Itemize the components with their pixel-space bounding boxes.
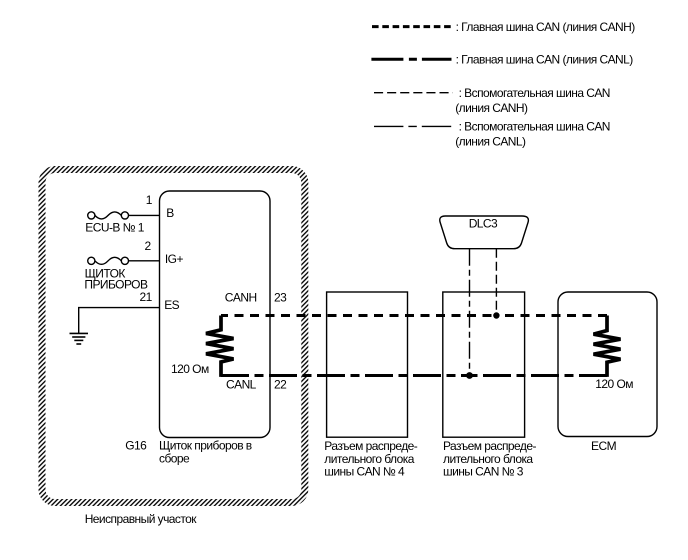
- label ECM: [591, 439, 617, 453]
- svg-text:ПРИБОРОВ: ПРИБОРОВ: [84, 278, 148, 292]
- pin 1: [146, 193, 153, 207]
- faulty area caption: [85, 512, 198, 526]
- svg-text:Разъем распреде-: Разъем распреде-: [443, 439, 536, 453]
- legend sample: auxiliary CAN bus CANH (thin dashed): [374, 92, 453, 94]
- svg-text:CANL: CANL: [226, 377, 257, 391]
- svg-text:(линия CANL): (линия CANL): [455, 135, 526, 149]
- pin name ES: [164, 298, 179, 312]
- instrument cluster box G16: [160, 191, 271, 438]
- svg-text:2: 2: [145, 239, 152, 253]
- svg-text:23: 23: [274, 290, 287, 304]
- CAN junction box No.3: [443, 292, 525, 437]
- svg-text:DLC3: DLC3: [469, 217, 498, 231]
- label G16: [125, 438, 147, 452]
- pin 21: [140, 290, 153, 304]
- pin name B: [166, 206, 174, 220]
- svg-text:21: 21: [140, 290, 153, 304]
- wire fuse2 to pin IG+: [129, 260, 160, 262]
- svg-text:: Главная шина CAN (линия CANH: : Главная шина CAN (линия CANH): [456, 20, 636, 34]
- svg-text:(линия CANH): (линия CANH): [455, 101, 528, 115]
- ECM box: [558, 292, 657, 437]
- wire: aux bus CANL (thin dash-dot) DLC3 to CANL node: [469, 249, 471, 376]
- wire: aux bus CANH (thin dashed) DLC3 to CANH node: [495, 249, 497, 316]
- resistor R2 120 Ohm (ECM terminating resistor): [594, 316, 621, 377]
- svg-text:1: 1: [146, 193, 153, 207]
- pin name CANH: [225, 290, 257, 304]
- svg-text:Разъем распреде-: Разъем распреде-: [324, 439, 417, 453]
- legend text: auxiliary CAN bus CANL: [455, 120, 610, 149]
- pin name CANL: [226, 377, 257, 391]
- resistor R1 120 Ohm (instrument cluster terminating resistor): [206, 316, 234, 377]
- svg-text:: Вспомогательная шина CAN: : Вспомогательная шина CAN: [459, 86, 610, 100]
- label junction box No.4: [324, 439, 417, 479]
- svg-text:шины CAN № 4: шины CAN № 4: [324, 465, 405, 479]
- label ECU-B No.1: [85, 220, 144, 234]
- svg-text:Неисправный участок: Неисправный участок: [85, 512, 198, 526]
- svg-text:IG+: IG+: [165, 252, 184, 266]
- fuse ECU-B No.1: [88, 212, 129, 219]
- pin 22: [274, 377, 287, 391]
- label DLC3: [469, 217, 498, 231]
- label: instrument cluster assembly: [159, 439, 252, 466]
- svg-text:CANH: CANH: [225, 290, 257, 304]
- pin 2: [145, 239, 152, 253]
- label fuse instrument panel: [84, 266, 148, 291]
- svg-text:ECU-B № 1: ECU-B № 1: [85, 220, 144, 234]
- ground: [70, 333, 89, 344]
- svg-text:сборе: сборе: [159, 451, 190, 465]
- svg-text:: Вспомогательная шина CAN: : Вспомогательная шина CAN: [459, 120, 610, 134]
- wire fuse1 to pin B: [129, 214, 160, 216]
- pin name IG+: [165, 252, 184, 266]
- CAN junction box No.4: [327, 292, 408, 437]
- DLC3 connector: [440, 216, 529, 249]
- svg-text:22: 22: [274, 377, 287, 391]
- legend text: auxiliary CAN bus CANH: [455, 86, 610, 115]
- wire ES to ground: [79, 308, 160, 334]
- label 120 Ohm (left resistor): [171, 362, 209, 376]
- legend sample: main CAN bus CANL (thick dash-dot): [371, 58, 451, 61]
- svg-text:120 Ом: 120 Ом: [595, 377, 633, 391]
- pin 23: [274, 290, 287, 304]
- svg-text:G16: G16: [125, 438, 147, 452]
- svg-text:B: B: [166, 206, 174, 220]
- wire: main bus CANL (thick dash-dot) from pin 22 to ECM: [221, 374, 607, 377]
- label junction box No.3: [443, 439, 536, 479]
- legend sample: main CAN bus CANH (thick dashed): [372, 25, 452, 28]
- svg-text:: Главная шина CAN (линия CANL: : Главная шина CAN (линия CANL): [456, 53, 634, 67]
- legend sample: auxiliary CAN bus CANL (thin dash-dot): [374, 125, 453, 127]
- svg-text:120 Ом: 120 Ом: [171, 362, 209, 376]
- node: CANL junction dot: [466, 372, 473, 379]
- svg-text:шины CAN № 3: шины CAN № 3: [443, 465, 524, 479]
- fuse instrument panel: [88, 257, 129, 264]
- legend text: main CAN bus CANH: [456, 20, 636, 34]
- legend text: main CAN bus CANL: [456, 53, 634, 67]
- node: CANH junction dot: [493, 312, 499, 318]
- wire: main bus CANH (thick dashed) from pin 23 to ECM: [221, 314, 607, 317]
- svg-text:ES: ES: [164, 298, 179, 312]
- label 120 Ohm (ECM resistor): [595, 377, 633, 391]
- svg-text:ECM: ECM: [591, 439, 617, 453]
- faulty area hatched border: [42, 170, 305, 503]
